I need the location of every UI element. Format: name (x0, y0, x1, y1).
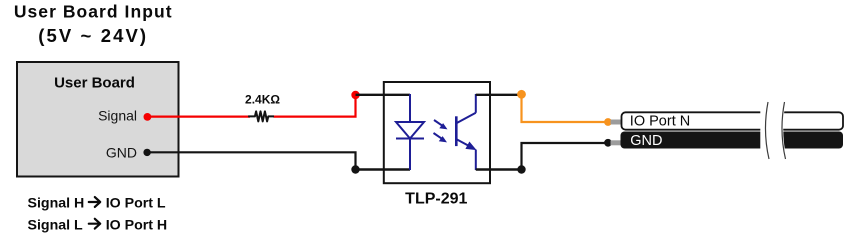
wire emitter (black) (476, 168, 522, 170)
wire GND cable (black) (522, 143, 606, 170)
svg-text:User Board Input: User Board Input (14, 2, 173, 22)
cable IO Port N (622, 112, 844, 129)
node cathode junction (black dot) (351, 165, 359, 173)
note Signal H (28, 196, 166, 212)
wire signal to junction (red) (274, 95, 356, 117)
LED D1 (396, 94, 424, 170)
node Signal pin (red dot) (144, 113, 152, 121)
svg-text:IO Port N: IO Port N (630, 114, 690, 130)
wire anode (black) (356, 94, 411, 96)
svg-text:IO Port L: IO Port L (106, 196, 166, 212)
resistor R 2.4KΩ (248, 111, 274, 121)
svg-text:User Board: User Board (54, 75, 135, 92)
user board box (17, 62, 179, 177)
node GND pin (black dot) (143, 149, 150, 156)
wire GND from user board (black) (147, 152, 355, 169)
node IO Port cable (orange dot) (604, 118, 612, 126)
wire signal (red) (147, 115, 250, 117)
node emitter junction (black dot) (517, 165, 525, 173)
svg-text:TLP-291: TLP-291 (405, 191, 467, 208)
svg-text:IO Port H: IO Port H (106, 217, 167, 233)
node collector junction (orange dot) (517, 90, 526, 99)
connector stub GND (gray) (611, 140, 623, 145)
note arrow 1 (89, 197, 100, 207)
optocoupler body U1 (384, 82, 490, 183)
svg-text:Signal: Signal (98, 108, 137, 124)
cable break symbol (760, 102, 787, 160)
phototransistor Q1 (456, 94, 476, 170)
svg-text:GND: GND (630, 133, 662, 149)
note arrow 2 (89, 219, 100, 229)
svg-text:Signal L: Signal L (28, 217, 84, 233)
light arrows (434, 120, 448, 142)
note Signal L (28, 217, 168, 233)
svg-text:(5V ~ 24V): (5V ~ 24V) (38, 25, 148, 46)
wire cathode (black) (356, 168, 411, 170)
node GND cable (black dot) (604, 139, 612, 147)
node anode junction (red dot) (351, 91, 359, 99)
connector stub IO Port (gray) (611, 120, 623, 125)
cable GND (621, 132, 844, 149)
svg-text:2.4KΩ: 2.4KΩ (245, 93, 280, 107)
svg-text:Signal H: Signal H (28, 196, 85, 212)
wire IO Port (orange) (522, 95, 606, 122)
title User Board Input (14, 2, 173, 46)
svg-text:GND: GND (106, 145, 137, 161)
wire collector (black) (476, 94, 522, 96)
